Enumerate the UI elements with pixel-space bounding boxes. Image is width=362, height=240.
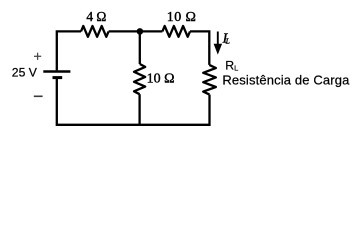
node A junction dot: [137, 28, 144, 35]
wire from middle resistor down to bottom wire: [138, 94, 140, 125]
minus sign polarity: [34, 95, 43, 97]
wire top-left from battery positive up and across to 4-ohm resistor: [57, 31, 81, 70]
resistor RL load (vertical zigzag): [203, 65, 216, 95]
wire from RL down to bottom-right corner, bottom wire, and up to battery negative: [57, 79, 210, 125]
battery V1 positive long plate: [43, 70, 70, 72]
svg-text:10 Ω: 10 Ω: [167, 10, 197, 25]
current arrow IL pointing down: [214, 32, 223, 55]
resistor 10-ohm top (horizontal zigzag): [162, 26, 190, 37]
svg-text:Resistência de Carga: Resistência de Carga: [222, 72, 350, 87]
wire middle branch from node A down to middle resistor: [139, 31, 141, 64]
wire from 4-ohm resistor to node A: [109, 30, 163, 32]
svg-text:4 Ω: 4 Ω: [86, 9, 106, 24]
resistor 10-ohm middle (vertical zigzag): [134, 64, 145, 94]
wire from top 10-ohm resistor to top-right corner and down to RL: [190, 31, 209, 65]
plus sign polarity: [34, 53, 41, 60]
battery V1 negative short plate: [53, 76, 63, 79]
resistor R 4-ohm (horizontal zigzag): [81, 26, 109, 37]
svg-text:10 Ω: 10 Ω: [147, 72, 175, 87]
svg-text:25 V: 25 V: [12, 66, 38, 80]
